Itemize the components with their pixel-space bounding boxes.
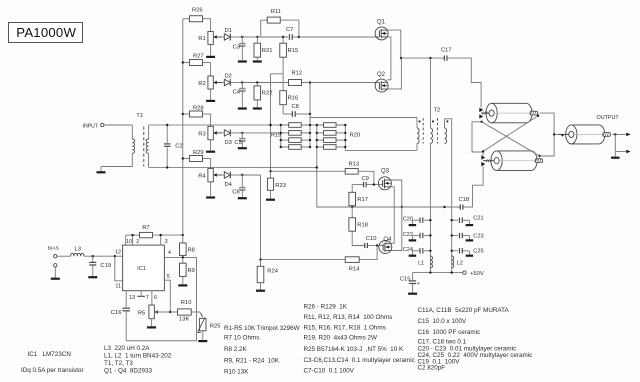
svg-text:+50V: +50V	[470, 271, 484, 277]
svg-text:C16: C16	[111, 310, 122, 316]
svg-text:IC1 LM723CN: IC1 LM723CN	[28, 351, 72, 358]
resistor R21	[254, 43, 261, 57]
capacitor C22	[424, 235, 430, 237]
IC op-amp U1 LM723 body	[123, 245, 165, 291]
svg-text:R9: R9	[188, 268, 195, 274]
ground R25	[198, 340, 207, 342]
svg-text:C23: C23	[473, 233, 483, 239]
svg-text:R10: R10	[181, 300, 192, 306]
svg-text:10: 10	[126, 239, 132, 245]
output balun input stub	[558, 133, 569, 135]
svg-text:R13: R13	[349, 161, 360, 167]
svg-text:R18: R18	[357, 222, 368, 228]
resistor R17	[351, 185, 353, 193]
transistor Q2	[375, 79, 388, 92]
svg-text:R21: R21	[262, 48, 273, 54]
ground T1 primary	[97, 171, 106, 173]
balun 1 input stub	[481, 112, 489, 114]
svg-text:2: 2	[136, 239, 139, 245]
ground R24	[256, 290, 265, 292]
svg-text:C3-C6,C13,C14 0.1 multylayer: C3-C6,C13,C14 0.1 multylayer ceramic	[304, 357, 415, 364]
svg-text:R9, R21 - R24 10K: R9, R21 - R24 10K	[224, 358, 280, 365]
wire box to T2 primary bottom	[345, 149, 417, 151]
resistor R19 element 3	[281, 139, 289, 141]
svg-text:R26 - R129 1K: R26 - R129 1K	[304, 304, 348, 311]
resistor R23	[270, 171, 272, 178]
svg-text:C18: C18	[459, 197, 470, 203]
wire output to C17	[401, 57, 444, 59]
svg-text:R3: R3	[198, 132, 205, 138]
svg-text:C9: C9	[362, 176, 369, 182]
svg-text:6: 6	[154, 295, 157, 301]
capacitor C20	[424, 219, 430, 221]
node Q3 gate	[373, 183, 375, 185]
svg-text:Q1: Q1	[377, 20, 386, 26]
svg-text:D3: D3	[225, 140, 232, 146]
svg-text:R4: R4	[198, 174, 206, 180]
svg-text:C15: C15	[400, 277, 411, 283]
svg-text:R24: R24	[267, 269, 278, 275]
ground output	[614, 152, 616, 157]
wire row4 output down to R24 line	[242, 174, 260, 176]
capacitor C2	[166, 125, 168, 143]
resistor R8	[182, 235, 184, 243]
svg-text:R11: R11	[271, 9, 281, 15]
T2 core	[422, 118, 424, 144]
svg-text:R19: R19	[271, 132, 281, 138]
wire Q4 source	[391, 207, 402, 251]
svg-text:L3: L3	[75, 247, 81, 253]
T2 secondary winding B	[444, 119, 446, 128]
INPUT terminal	[101, 123, 104, 126]
node C19	[92, 255, 94, 257]
ground R9	[178, 284, 187, 286]
wire top secondary rail	[149, 124, 346, 126]
svg-text:PA1000W: PA1000W	[16, 25, 76, 40]
resistor R9	[180, 263, 187, 276]
ground R22	[253, 107, 262, 109]
pin 4 wire	[164, 256, 196, 258]
svg-text:R7 10 Ohms: R7 10 Ohms	[224, 335, 259, 342]
svg-text:R7: R7	[142, 225, 149, 231]
wire cross balun1-left to balun2-out	[482, 122, 540, 156]
wire join to output balun	[554, 133, 558, 135]
node Q4 gate	[376, 244, 378, 246]
vertical wire to R23 area	[270, 74, 272, 172]
wire Q1 drain	[387, 30, 400, 58]
wire L2 branch	[451, 207, 453, 273]
svg-text:D1: D1	[225, 28, 232, 34]
resistor R18	[349, 218, 356, 231]
inductor L2	[452, 256, 454, 268]
pin 6 wire	[151, 291, 153, 305]
wire to R15 top	[261, 36, 288, 38]
svg-text:C22: C22	[403, 232, 413, 238]
svg-text:4: 4	[168, 250, 171, 256]
svg-text:R27: R27	[193, 54, 204, 60]
resistor R20 element 4	[317, 146, 324, 148]
ground R1	[210, 44, 212, 55]
svg-text:R26: R26	[192, 8, 203, 14]
ground C15	[408, 293, 417, 295]
svg-text:R15, R16, R17, R18 1 Ohms: R15, R16, R17, R18 1 Ohms	[304, 325, 386, 332]
wire +50V rail	[413, 272, 463, 274]
svg-text:D2: D2	[225, 73, 232, 79]
svg-text:R22: R22	[262, 91, 273, 97]
svg-text:T1: T1	[136, 113, 143, 119]
svg-text:C16 1000 PF ceramic: C16 1000 PF ceramic	[418, 329, 481, 336]
wire Q2 source	[387, 58, 401, 89]
wire C18 to balun 2	[463, 167, 483, 208]
svg-text:Q1 - Q4 8D2933: Q1 - Q4 8D2933	[104, 367, 152, 374]
node R17/R18 rail junction	[351, 206, 353, 208]
ground C3	[238, 60, 247, 62]
node T2 winding B rail junction	[443, 206, 445, 208]
resistor R16	[282, 74, 284, 91]
resistor R19 element 2	[281, 132, 289, 134]
pin 3 wire	[160, 235, 162, 245]
transistor Q1	[375, 27, 388, 40]
svg-text:13: 13	[129, 295, 135, 301]
wire Q1 source to Q2	[387, 37, 391, 80]
ground R21	[253, 60, 262, 62]
svg-text:L2: L2	[457, 260, 463, 266]
wire Q3/Q4 output rail	[317, 168, 460, 208]
balun 2 input stub	[483, 160, 494, 162]
balun transformer 1	[492, 103, 532, 123]
svg-text:C7: C7	[286, 27, 293, 33]
ground C5	[238, 147, 247, 149]
svg-text:R16: R16	[288, 96, 299, 102]
resistor R20 element 2	[317, 132, 324, 134]
svg-text:C8: C8	[292, 104, 299, 110]
svg-text:C25: C25	[473, 249, 483, 255]
svg-text:C24: C24	[403, 247, 413, 253]
node Q1/Q2 output	[400, 57, 402, 59]
ground C4	[238, 107, 247, 109]
terminal +50V	[463, 271, 466, 274]
wire R18 to C10	[352, 231, 365, 245]
svg-text:Q3: Q3	[381, 168, 390, 174]
wire Q3 source to Q4	[391, 187, 395, 243]
svg-text:5: 5	[167, 274, 170, 280]
svg-text:C17: C17	[441, 48, 452, 54]
capacitor C25	[452, 250, 458, 252]
title box PA1000W	[9, 23, 83, 43]
svg-text:INPUT: INPUT	[83, 124, 98, 130]
svg-text:R19, R20 4x43 Ohms 2W: R19, R20 4x43 Ohms 2W	[304, 335, 378, 342]
svg-text:R20: R20	[350, 133, 361, 139]
node R24 top	[259, 258, 261, 260]
svg-text:R1: R1	[198, 36, 205, 42]
svg-text:C10: C10	[366, 236, 377, 242]
pin 5 wire	[164, 280, 170, 312]
node C6 junction	[241, 174, 243, 176]
svg-text:T1, T2, T3: T1, T2, T3	[104, 360, 133, 367]
resistor R20 element 1	[317, 124, 324, 126]
diode D3	[222, 132, 224, 134]
resistor R20 element 3	[317, 139, 324, 141]
ground BIAS	[51, 278, 60, 280]
svg-text:R8: R8	[188, 247, 195, 253]
ground R23	[266, 199, 275, 201]
svg-text:Q4: Q4	[383, 237, 392, 243]
diode D4	[222, 174, 224, 176]
ground R3	[210, 140, 212, 151]
wire T2 winding B top to L2 feed	[445, 119, 452, 207]
svg-text:T2: T2	[434, 108, 441, 114]
wire balun outputs join	[540, 113, 555, 156]
wire Q3 drain	[391, 180, 402, 207]
svg-text:3: 3	[165, 239, 168, 245]
svg-text:C2: C2	[175, 144, 182, 150]
svg-text:12: 12	[115, 249, 121, 255]
wire balun1 shield to balun2 feed	[472, 122, 483, 156]
svg-text:IC1: IC1	[137, 266, 146, 272]
node C5 junction	[241, 132, 243, 134]
svg-text:R5: R5	[138, 310, 145, 316]
capacitor C23	[452, 235, 458, 237]
ground C6	[238, 197, 247, 199]
ground R5	[151, 319, 153, 327]
wire input to T1	[104, 124, 132, 126]
inductor L1	[430, 256, 432, 268]
wire row1 to Q1 gate	[299, 36, 380, 38]
node pin5/R5/R10 junction	[169, 311, 171, 313]
svg-text:R12: R12	[292, 71, 303, 77]
wire L1 branch	[429, 144, 431, 273]
svg-text:R8 2.2K: R8 2.2K	[224, 346, 248, 353]
wire feedback loop bottom	[126, 257, 196, 340]
svg-text:R14: R14	[349, 267, 360, 273]
wire R15 bottom elbow to left vertical	[271, 73, 284, 75]
svg-text:L3 220 uH 0.2A: L3 220 uH 0.2A	[104, 345, 150, 352]
svg-text:D4: D4	[225, 182, 233, 188]
node R12 output	[309, 81, 311, 83]
svg-text:C2 820pF: C2 820pF	[418, 365, 446, 372]
node output branch	[614, 133, 616, 135]
resistor R24	[260, 260, 262, 267]
resistor R19 element 4	[281, 146, 289, 148]
svg-text:C4: C4	[233, 89, 241, 95]
ground R2	[210, 89, 212, 100]
transistor Q3	[378, 177, 391, 190]
ground C19	[88, 276, 97, 278]
pin 10 wire	[125, 235, 127, 245]
svg-text:R1-R5 10K Trimpot 3296W: R1-R5 10K Trimpot 3296W	[224, 325, 300, 332]
svg-text:13K: 13K	[179, 317, 189, 323]
capacitor C21	[452, 219, 458, 221]
resistor R19 element 1	[281, 124, 289, 126]
svg-text:R25 B57164-K 103-J ,NT 5% 10: R25 B57164-K 103-J ,NT 5% 10 K	[304, 346, 404, 353]
node R21 junction	[256, 36, 258, 38]
svg-text:IDq 0.5A per transistor: IDq 0.5A per transistor	[21, 367, 84, 374]
wire Q4 gate to R14	[359, 246, 377, 260]
wire R13 to Q3 gate	[358, 171, 374, 184]
svg-text:+: +	[417, 281, 420, 287]
node C4 junction	[241, 81, 243, 83]
svg-text:R11, R12, R13, R14 100 Ohms: R11, R12, R13, R14 100 Ohms	[304, 314, 393, 321]
wire R10 to R25	[191, 311, 196, 313]
node Q3/Q4 rail junction	[401, 206, 403, 208]
output balun	[571, 125, 604, 144]
svg-text:R23: R23	[275, 183, 286, 189]
wire output arrow 1	[612, 133, 615, 135]
svg-text:C19: C19	[100, 263, 111, 269]
node C7 output	[298, 36, 300, 38]
pin 2 wire	[132, 235, 134, 245]
wire left bias bus	[182, 19, 184, 235]
thermistor R25	[197, 312, 203, 317]
svg-text:R15: R15	[288, 48, 299, 54]
svg-text:C11A, C11B 5x220 pF MURATA: C11A, C11B 5x220 pF MURATA	[418, 307, 510, 314]
wire row2 to Q2 gate	[310, 82, 380, 84]
capacitor C24	[424, 250, 430, 252]
svg-text:7: 7	[146, 295, 149, 301]
node R22 junction	[256, 81, 258, 83]
svg-text:R2: R2	[198, 81, 205, 87]
wire output branch down	[614, 134, 616, 151]
pin 11 loop	[115, 256, 123, 281]
svg-text:R10 13K: R10 13K	[224, 369, 249, 376]
svg-text:C3: C3	[233, 44, 240, 50]
node C3 junction	[241, 36, 243, 38]
wire box to T2 primary top	[310, 117, 417, 119]
BIAS return terminal	[54, 264, 57, 267]
svg-text:C21: C21	[473, 215, 483, 221]
svg-text:C20: C20	[403, 217, 413, 223]
wire output arrow 2	[615, 151, 627, 153]
node T2 feed	[429, 57, 431, 59]
transistor Q4	[379, 241, 392, 254]
wire bottom secondary rail	[149, 167, 317, 169]
svg-text:BIAS: BIAS	[48, 246, 60, 252]
svg-text:11: 11	[115, 284, 121, 290]
svg-text:L1, L2 1 turn BN43-202: L1, L2 1 turn BN43-202	[104, 353, 172, 360]
ground R4	[210, 182, 212, 197]
svg-text:C6: C6	[232, 189, 239, 195]
resistor R15	[282, 37, 284, 43]
svg-text:Q2: Q2	[377, 72, 386, 78]
svg-text:L1: L1	[418, 260, 424, 266]
wire C17 to balun 1	[447, 58, 481, 107]
svg-text:C15 10.0 x 100V: C15 10.0 x 100V	[418, 318, 467, 325]
svg-text:C7-C10 0.1 100V: C7-C10 0.1 100V	[304, 367, 355, 374]
balun transformer 2	[497, 151, 537, 171]
svg-text:OUTPUT: OUTPUT	[597, 115, 620, 121]
resistor R22	[254, 86, 261, 100]
node R7/R8 bus junction	[182, 234, 184, 236]
svg-text:R17: R17	[357, 197, 368, 203]
svg-text:R25: R25	[210, 323, 221, 329]
wire cross balun1-out to balun2-left	[483, 116, 538, 152]
wire T2 secondary A feed	[429, 58, 431, 128]
T2 secondary winding A	[430, 128, 432, 144]
wire R14 to R24 line	[261, 259, 346, 261]
